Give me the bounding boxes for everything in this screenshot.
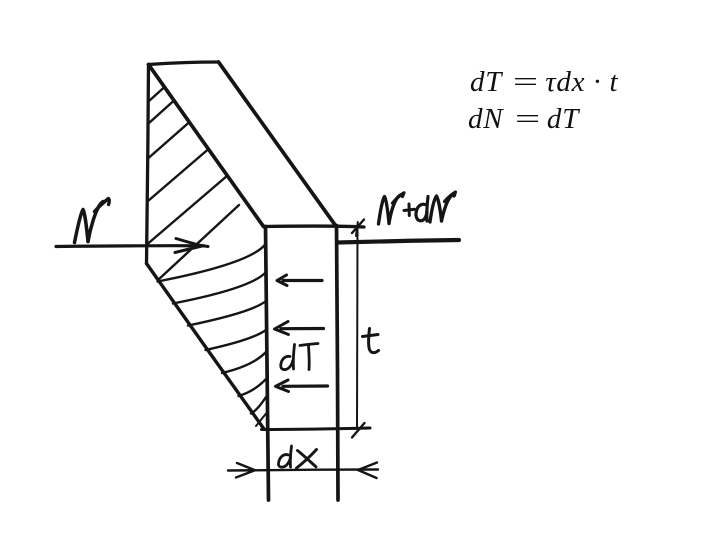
shear arrow 2 (281, 327, 324, 330)
hatch line l3 (188, 301, 266, 326)
strip right vertical edge (337, 226, 339, 501)
label N+dN (handwritten) (379, 197, 390, 225)
back diagonal edge (219, 62, 336, 226)
label dT (handwritten) (281, 356, 293, 369)
shear arrow 1 (283, 279, 322, 282)
bottom diagonal edge (147, 264, 265, 430)
hatch line l2 (173, 272, 266, 304)
label dx (handwritten) (278, 455, 290, 468)
top edge of prism (149, 62, 219, 65)
hatch line u3 (149, 122, 190, 158)
hatch line u4 (148, 149, 209, 201)
hatch line u2 (149, 101, 174, 124)
hatch line l8 (256, 413, 267, 426)
t dimension bottom tick (352, 423, 365, 438)
hatch line l1 (158, 244, 267, 282)
N+dN force line (338, 240, 460, 243)
t dimension line (356, 228, 359, 428)
dx right arrowhead (358, 463, 377, 479)
hatch line l4 (206, 330, 267, 350)
hatch line u5 (148, 176, 228, 245)
N force arrowhead (175, 239, 208, 253)
label N (handwritten) (75, 210, 89, 243)
hatch line u1 (149, 87, 165, 101)
hatch line l6 (239, 379, 267, 396)
hatch line l7 (251, 397, 266, 414)
formula line 1: dT = tau dx . t (470, 66, 618, 99)
strip bottom horizontal line (262, 428, 371, 430)
shear arrow 3 (283, 384, 328, 387)
formula line 2: dN = dT (468, 103, 579, 136)
label t (handwritten) (369, 329, 379, 353)
left vertical edge (147, 65, 149, 264)
strip left vertical edge (266, 227, 269, 501)
dx left arrowhead (236, 463, 255, 478)
hatch line l5 (222, 352, 266, 373)
t dimension top tick (352, 220, 364, 234)
front top diagonal edge (149, 65, 264, 227)
N force arrow line (56, 244, 204, 248)
strip top horizontal line (264, 226, 365, 227)
dx dimension line (228, 470, 378, 471)
hatch line u6 (158, 205, 239, 280)
